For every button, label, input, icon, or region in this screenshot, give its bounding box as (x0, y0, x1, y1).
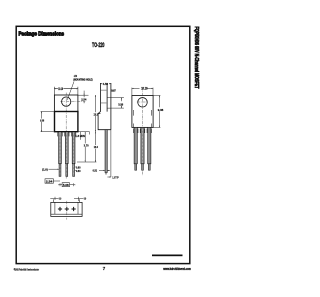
boxed dimension 2.54 (45, 179, 53, 183)
dimension 2.54 hole-to-top (78, 91, 88, 104)
bottom view centerline (66, 201, 68, 220)
lead 2 front view (65, 132, 70, 177)
svg-text:www.fairchildsemi.com: www.fairchildsemi.com (162, 267, 190, 271)
side view front face (98, 83, 100, 114)
svg-text:FQP50N06 60V N-Channel MOSFET: FQP50N06 60V N-Channel MOSFET (193, 27, 199, 90)
lead 3 front view (71, 132, 76, 177)
svg-text:1.3 MIN: 1.3 MIN (75, 134, 85, 138)
svg-text:3.56: 3.56 (118, 102, 123, 106)
body bottom extension line right (78, 132, 89, 140)
svg-text:9.38: 9.38 (40, 119, 44, 123)
back view top dimension 10.16 (132, 88, 153, 89)
back view lead 1 (133, 127, 138, 170)
dimension 1.3 TYP at side view bottom (107, 176, 111, 178)
svg-text:13.5: 13.5 (94, 112, 99, 116)
svg-text:TO-220: TO-220 (92, 43, 105, 49)
side view tab front face (106, 83, 108, 112)
hole horizontal centerline (60, 101, 85, 103)
mounting hole circle (62, 97, 71, 106)
svg-text:(1.0): (1.0) (42, 167, 48, 171)
svg-text:2.54: 2.54 (46, 179, 53, 183)
side view hole dimension 3.56 (111, 98, 124, 109)
svg-text:3.70: 3.70 (84, 144, 89, 148)
side view lead thickness dimension (99, 170, 110, 171)
side view body lower outline (98, 114, 111, 130)
svg-text:9.38: 9.38 (158, 108, 164, 112)
svg-text:(MOUNTING HOLE): (MOUNTING HOLE) (73, 77, 92, 81)
svg-text:13.0: 13.0 (94, 145, 99, 149)
svg-text:0.9: 0.9 (84, 197, 87, 201)
lead 1 front view (58, 132, 63, 177)
boxed dimension 5.08 (62, 183, 69, 187)
back view vertical centerline (142, 88, 144, 176)
side view back extension line (110, 130, 112, 177)
back view lead 3 (147, 127, 152, 170)
vertical centerline of front view (65, 93, 67, 179)
side view back face (110, 83, 112, 130)
back view body outline (132, 96, 153, 128)
tab thickness dimension 1.27 (111, 89, 115, 91)
svg-text:0.51: 0.51 (93, 169, 98, 173)
svg-text:10.16: 10.16 (141, 87, 148, 91)
bottom view right wall dimension (74, 197, 83, 201)
svg-text:1.3 TYP: 1.3 TYP (112, 175, 118, 179)
back view mounting hole (138, 98, 148, 108)
lead length dimension line x=85 (85, 132, 86, 162)
back view top width extension lines (132, 88, 153, 96)
footer thick bar (152, 255, 183, 257)
side view lead (105, 130, 107, 173)
front view body outline (thick) (55, 112, 78, 132)
front view tab outline (54, 95, 78, 112)
overall height dimension line x=95.4 (77, 95, 96, 162)
side view hole edges in tab (107, 98, 111, 109)
side view hidden hole lines (gray) (101, 90, 107, 103)
side view top dimension 4.50 (100, 83, 111, 84)
dimension line 10.16 top width (54, 88, 78, 90)
svg-text:2.54: 2.54 (81, 98, 86, 102)
svg-text:0.60: 0.60 (76, 169, 81, 173)
left dimension 9.38 body height (41, 112, 54, 132)
mounting hole leader line (67, 82, 74, 100)
front view tab top width extension lines (54, 87, 78, 95)
bottom view inner walls (51, 202, 82, 214)
svg-text:Package Dimensions: Package Dimensions (19, 32, 65, 38)
back view height dimension (153, 96, 160, 128)
back view lead 2 (140, 127, 145, 170)
page frame border (16, 26, 190, 263)
bottom view outer outline (51, 202, 82, 216)
svg-text:0.9: 0.9 (59, 197, 62, 201)
bottom view corner stubs (53, 199, 79, 202)
svg-text:10.16: 10.16 (58, 87, 63, 91)
bottom view left wall dimension (50, 197, 58, 200)
svg-text:©2002 Fairchild Semiconductor: ©2002 Fairchild Semiconductor (14, 267, 40, 271)
svg-text:1.27: 1.27 (111, 89, 116, 93)
back view hole horizontal centerline (137, 101, 148, 103)
bottom view lead cross sections (58, 207, 76, 211)
back view side groove lines (133, 110, 151, 127)
svg-text:5.08: 5.08 (63, 183, 69, 187)
